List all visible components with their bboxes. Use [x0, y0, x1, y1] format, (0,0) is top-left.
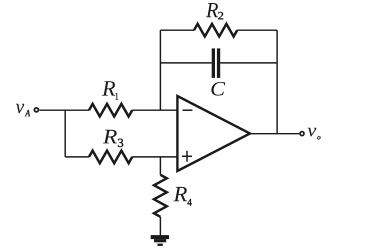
wire: R3 right lead to noninverting input [132, 156, 177, 158]
label vA A [25, 110, 30, 116]
label R2 2 [218, 12, 223, 19]
wire: R3 left lead [65, 156, 89, 158]
resistor R4 [154, 175, 167, 217]
node vo output terminal [300, 132, 304, 136]
wire: feedback top left segment to R2 [160, 29, 194, 31]
wire: junction drop from input node down to R3 branch [64, 110, 66, 157]
wire: input from vA terminal to inverting input [39, 109, 89, 111]
resistor R1 [89, 104, 132, 117]
wire: capacitor branch left segment [160, 62, 211, 64]
capacitor C plates [212, 48, 221, 78]
label vo v [308, 128, 317, 137]
wire: feedback top right segment from R2 [237, 29, 277, 31]
label vA v [16, 104, 24, 114]
label C [211, 82, 225, 96]
label R3 3 [118, 139, 123, 147]
label R4 4 [187, 199, 191, 206]
wire: feedback left vertical from inverting node up [159, 30, 161, 110]
label R3 R [103, 130, 117, 144]
label vo o [317, 136, 320, 139]
ground [151, 235, 169, 246]
op-amp plus sign [182, 151, 192, 162]
op-amp U1 triangle [177, 96, 250, 171]
label R1 R [102, 81, 115, 95]
node vA input terminal [34, 108, 38, 112]
label R4 R [173, 187, 187, 201]
wire: R4 top lead from noninverting node [159, 157, 161, 175]
resistor R2 [194, 24, 237, 37]
wire: feedback right vertical down to output [276, 30, 278, 134]
label R1 1 [115, 93, 118, 100]
resistor R3 [89, 151, 132, 164]
label R2 R [206, 3, 218, 17]
wire: R4 bottom lead to ground [159, 217, 161, 236]
wire: capacitor branch right segment [220, 62, 277, 64]
wire: output wire from op-amp to vo terminal [250, 133, 299, 135]
op-amp minus sign [183, 109, 193, 111]
